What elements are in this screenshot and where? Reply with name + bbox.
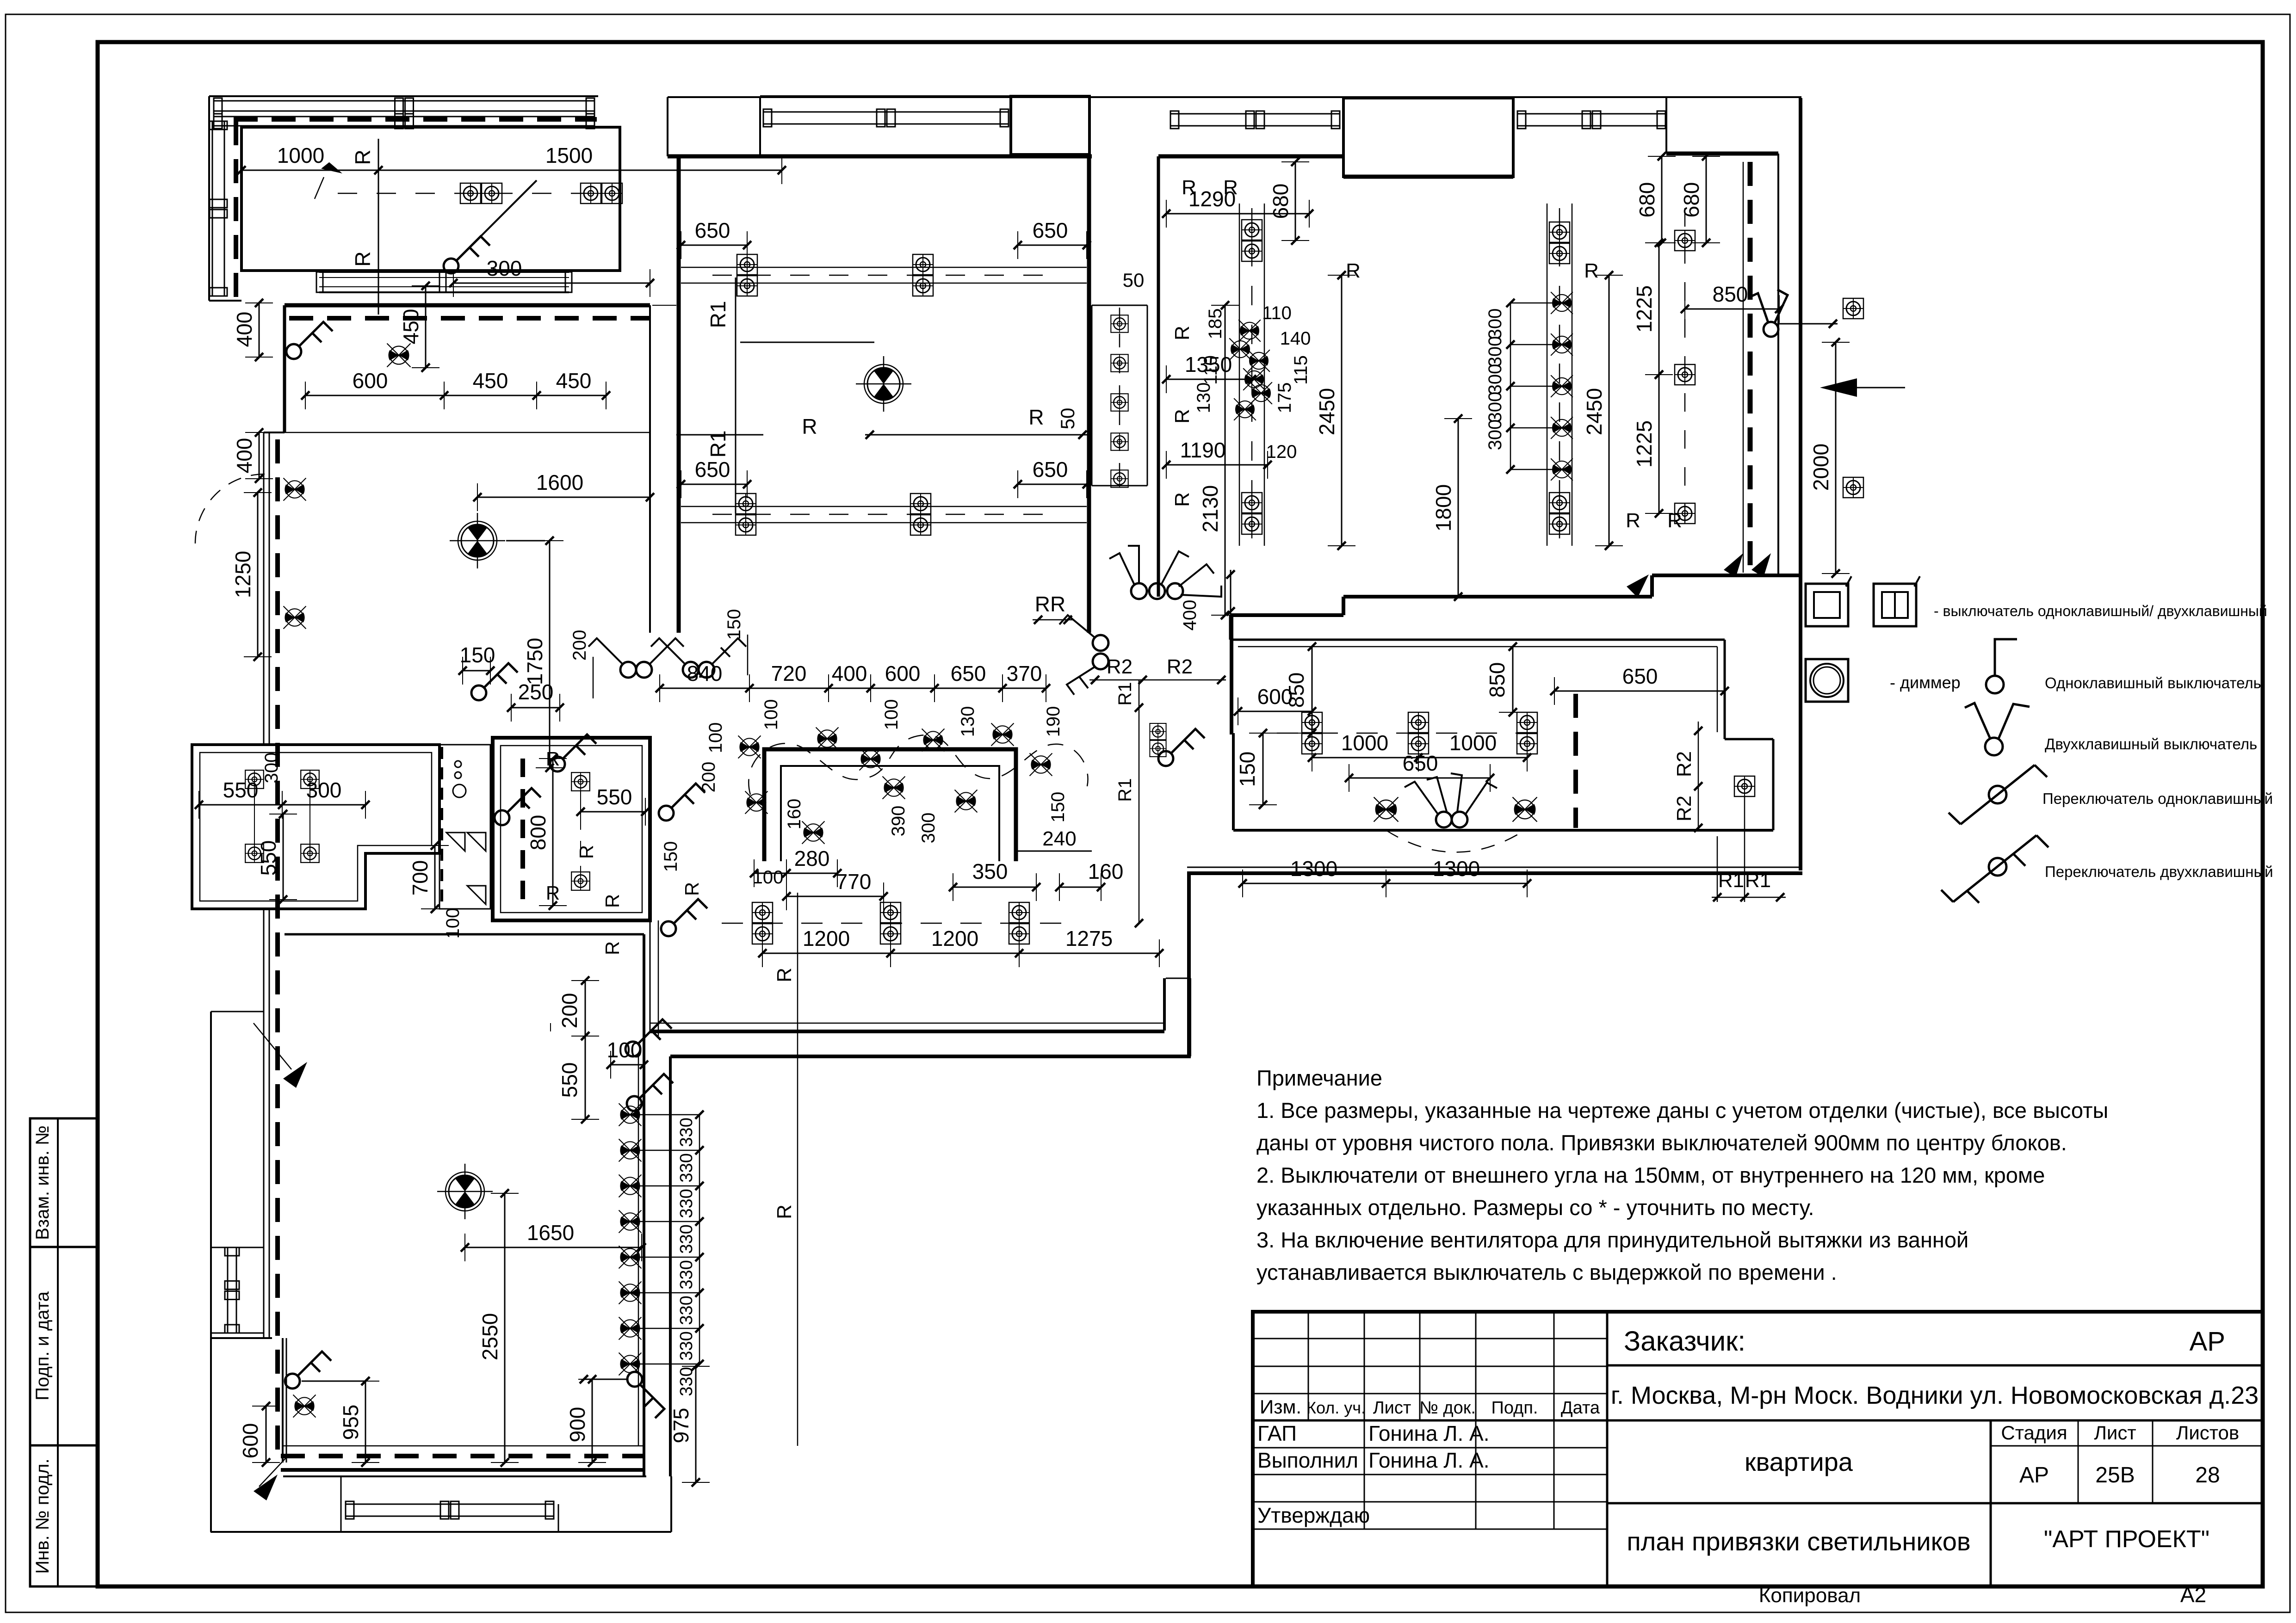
dim 400 hall lower xyxy=(259,432,260,479)
legend two-key changeover switch xyxy=(2036,835,2048,847)
svg-text:R: R xyxy=(802,414,817,438)
svg-text:400: 400 xyxy=(832,661,867,685)
svg-text:R: R xyxy=(576,845,597,859)
svg-text:R: R xyxy=(1171,492,1194,507)
double wall right of bottom room xyxy=(669,1056,672,1476)
svg-text:1275: 1275 xyxy=(1065,926,1113,950)
svg-text:Гонина Л. А.: Гонина Л. А. xyxy=(1368,1421,1490,1445)
svg-text:300: 300 xyxy=(306,778,342,802)
svg-text:даны от уровня чистого пола.: даны от уровня чистого пола. Привязки вы… xyxy=(1256,1130,2067,1155)
bathroom dashed line xyxy=(520,759,525,906)
svg-text:100: 100 xyxy=(881,699,902,730)
svg-text:план привязки светильников: план привязки светильников xyxy=(1627,1527,1970,1556)
svg-text:200: 200 xyxy=(569,630,590,661)
svg-text:R: R xyxy=(773,968,796,982)
svg-text:330: 330 xyxy=(677,1189,696,1218)
shaft walls xyxy=(1091,305,1093,486)
dim 700 / 100 shaft xyxy=(434,845,436,909)
outside wall lights xyxy=(1843,298,1863,319)
svg-text:700: 700 xyxy=(408,860,432,896)
downlight pair B2 xyxy=(1242,493,1262,534)
svg-text:600: 600 xyxy=(885,661,921,685)
svg-text:1650: 1650 xyxy=(527,1221,574,1245)
svg-text:300: 300 xyxy=(1485,336,1505,367)
svg-text:Переключатель одноклавишный: Переключатель одноклавишный xyxy=(2042,790,2273,807)
svg-text:330: 330 xyxy=(677,1260,696,1289)
top edge right wing xyxy=(668,96,1801,98)
switch left of kitchen xyxy=(550,734,596,771)
left balcony outer wall xyxy=(210,1012,212,1532)
hall top wall xyxy=(285,303,650,308)
svg-text:330: 330 xyxy=(677,1367,696,1396)
vent shaft between WC and bath xyxy=(439,745,490,909)
svg-text:2. Выключатели от внешнего угл: 2. Выключатели от внешнего угла на 150мм… xyxy=(1256,1163,2045,1187)
guest dims xyxy=(1238,711,1312,712)
bathroom walls xyxy=(493,738,650,920)
bedroom dashed thick wardrobe line xyxy=(1748,162,1753,573)
svg-text:R2: R2 xyxy=(1167,655,1193,678)
bedroom right inner wall xyxy=(1777,154,1779,575)
window band bedroom left xyxy=(1170,113,1340,115)
dining dashed light row xyxy=(722,923,1064,924)
WC dims xyxy=(199,804,365,806)
bedroom bottom walls stepped xyxy=(1652,574,1801,577)
svg-text:R: R xyxy=(1028,405,1044,429)
bowtie row right wall xyxy=(619,1104,642,1126)
dim 1250 xyxy=(257,493,259,657)
svg-text:1000: 1000 xyxy=(277,143,324,167)
chandelier bottom room xyxy=(437,1164,493,1219)
dims 650 living lower xyxy=(681,484,747,485)
guest room bottom wall xyxy=(1233,829,1773,832)
svg-text:300: 300 xyxy=(1485,309,1505,339)
2000 dim outside xyxy=(1835,342,1837,574)
svg-text:№ док.: № док. xyxy=(1419,1398,1476,1418)
svg-text:150: 150 xyxy=(460,643,495,667)
svg-text:330: 330 xyxy=(677,1331,696,1360)
svg-text:Подп. и дата: Подп. и дата xyxy=(32,1291,53,1400)
svg-text:680: 680 xyxy=(1679,182,1703,218)
svg-text:R2: R2 xyxy=(1673,796,1696,821)
svg-text:Изм.: Изм. xyxy=(1260,1396,1301,1418)
svg-text:400: 400 xyxy=(232,438,256,474)
svg-text:Листов: Листов xyxy=(2176,1422,2239,1444)
corridor bottom thin line xyxy=(650,1023,1164,1024)
single downlights column right xyxy=(1675,230,1695,251)
svg-text:550: 550 xyxy=(597,785,632,809)
dim 1000 / 1500 top-left xyxy=(241,170,782,171)
svg-text:R: R xyxy=(1667,509,1682,532)
svg-text:Утверждаю: Утверждаю xyxy=(1257,1503,1370,1527)
wall down to guest area xyxy=(1187,872,1191,1056)
svg-text:АР: АР xyxy=(2019,1463,2049,1487)
svg-text:330: 330 xyxy=(677,1224,696,1253)
bottom room left wall xyxy=(282,1338,284,1463)
svg-text:50: 50 xyxy=(1057,408,1078,430)
svg-text:квартира: квартира xyxy=(1745,1447,1853,1476)
svg-text:680: 680 xyxy=(1635,182,1659,218)
dim 300 sill xyxy=(453,283,650,284)
svg-text:150: 150 xyxy=(661,841,681,872)
wardrobe room walls xyxy=(241,127,620,271)
switch bedroom right xyxy=(1748,290,1788,337)
bathroom dims xyxy=(552,759,554,906)
bottom room top wall xyxy=(285,933,644,936)
svg-text:770: 770 xyxy=(836,870,872,894)
switch top of row xyxy=(627,1074,673,1111)
living room left wall xyxy=(677,156,681,633)
legend one-key changeover switch xyxy=(2035,765,2047,777)
dims 200 550 100 right of room xyxy=(585,981,586,1036)
svg-text:185: 185 xyxy=(1205,309,1225,339)
svg-text:RR: RR xyxy=(1035,592,1065,616)
svg-text:R: R xyxy=(1171,409,1194,424)
svg-text:650: 650 xyxy=(695,218,730,242)
bedroom left wall xyxy=(1157,156,1160,597)
switches near bath xyxy=(495,788,541,825)
dim 1600 xyxy=(477,497,650,498)
switch near balcony door xyxy=(444,236,490,273)
downlight pair B1 xyxy=(1242,220,1262,261)
svg-text:1500: 1500 xyxy=(545,143,593,167)
svg-text:Дата: Дата xyxy=(1561,1398,1600,1418)
svg-text:1250: 1250 xyxy=(231,551,255,598)
bottom balcony outline xyxy=(210,1531,671,1533)
R ticks living mid xyxy=(676,434,763,436)
svg-text:R1: R1 xyxy=(706,301,730,328)
svg-text:850: 850 xyxy=(1713,282,1748,306)
svg-text:550: 550 xyxy=(256,840,280,876)
bedroom top wall right part xyxy=(1666,152,1778,156)
leader arrows bedroom bottom xyxy=(1627,574,1649,598)
guest switches xyxy=(1436,812,1452,827)
svg-text:240: 240 xyxy=(1042,827,1076,850)
window band left vertical xyxy=(212,121,213,296)
left stamp boxes xyxy=(30,1118,98,1586)
living centreline lower xyxy=(712,514,1046,515)
dims 650 living upper xyxy=(681,245,747,246)
wall lights on corridor wall xyxy=(284,478,306,501)
window band top-left xyxy=(214,100,594,102)
svg-text:Инв. № подл.: Инв. № подл. xyxy=(32,1458,53,1574)
legend two-key switch xyxy=(1985,738,2003,755)
svg-text:200: 200 xyxy=(557,993,582,1029)
svg-text:300: 300 xyxy=(261,753,282,784)
svg-text:25В: 25В xyxy=(2095,1463,2135,1487)
svg-text:R: R xyxy=(1584,259,1599,282)
svg-text:Выполнил: Выполнил xyxy=(1257,1448,1358,1472)
svg-text:350: 350 xyxy=(972,859,1008,883)
bedroom bowtie cluster xyxy=(1238,320,1261,342)
svg-text:1000: 1000 xyxy=(1449,731,1497,755)
svg-text:А2: А2 xyxy=(2180,1583,2206,1607)
bedroom bowtie column xyxy=(1551,292,1573,314)
svg-text:1000: 1000 xyxy=(1341,731,1388,755)
living ceiling lines upper xyxy=(681,267,1087,268)
dim 900 vertical xyxy=(592,1379,593,1463)
svg-text:100: 100 xyxy=(761,699,781,730)
svg-text:R: R xyxy=(681,882,703,896)
svg-text:1190: 1190 xyxy=(1180,438,1226,462)
svg-text:650: 650 xyxy=(1033,457,1068,481)
wall light hall top xyxy=(387,344,411,367)
outer south wall right wing xyxy=(1187,867,1802,868)
guest door arc xyxy=(1386,830,1525,852)
svg-text:Переключатель двухклавишный: Переключатель двухклавишный xyxy=(2045,863,2273,880)
downlight pair L3 xyxy=(736,494,756,535)
dim 1650 xyxy=(465,1247,642,1248)
svg-text:955: 955 xyxy=(339,1405,363,1440)
svg-text:450: 450 xyxy=(473,369,508,393)
kitchen U counter xyxy=(764,749,1016,861)
svg-text:300: 300 xyxy=(1485,392,1505,423)
svg-text:300: 300 xyxy=(487,256,522,280)
svg-text:850: 850 xyxy=(1284,673,1308,708)
svg-text:120: 120 xyxy=(1266,442,1297,462)
dims 600 450 450 xyxy=(305,395,606,396)
door arc hall xyxy=(195,474,265,543)
triple switch cluster xyxy=(1131,583,1147,599)
svg-text:1. Все размеры, указанные на: 1. Все размеры, указанные на чертеже дан… xyxy=(1256,1098,2108,1123)
dim 400 hall upper xyxy=(259,303,260,357)
svg-text:370: 370 xyxy=(1007,661,1042,685)
guest bowties xyxy=(1374,797,1398,821)
guest room inner lines xyxy=(1238,646,1717,648)
svg-text:390: 390 xyxy=(888,806,909,837)
window sill below wardrobe xyxy=(319,271,569,273)
svg-text:100: 100 xyxy=(706,722,726,753)
R labels corridor verticals xyxy=(550,1023,551,1031)
svg-text:1225: 1225 xyxy=(1632,285,1656,333)
switch bottom of row xyxy=(627,1372,664,1418)
dim 1750 vertical xyxy=(549,541,551,768)
bottom room right wall xyxy=(643,934,645,1475)
svg-text:400: 400 xyxy=(232,312,256,347)
svg-text:устанавливается выключатель с: устанавливается выключатель с выдержкой … xyxy=(1256,1260,1837,1284)
svg-text:900: 900 xyxy=(565,1407,589,1443)
svg-text:АР: АР xyxy=(2190,1327,2225,1357)
window band living xyxy=(763,111,1009,113)
svg-text:R: R xyxy=(546,882,560,904)
outer right wall xyxy=(1799,98,1802,870)
svg-text:R1: R1 xyxy=(1115,778,1135,802)
niche block top xyxy=(1011,96,1089,154)
guest room top wall xyxy=(1230,639,1725,641)
svg-text:840: 840 xyxy=(687,661,723,685)
svg-text:650: 650 xyxy=(695,457,730,481)
dim 1200 1200 1275 xyxy=(762,953,1159,954)
svg-text:300: 300 xyxy=(1485,364,1505,395)
switch hall left xyxy=(286,322,333,359)
switch above room xyxy=(625,1019,672,1056)
svg-text:R1: R1 xyxy=(1115,682,1135,705)
downlight pair A2 xyxy=(581,183,622,204)
svg-text:Лист: Лист xyxy=(2094,1422,2136,1444)
svg-text:Двухклавишный выключатель: Двухклавишный выключатель xyxy=(2045,735,2257,753)
bedroom dims xyxy=(1166,213,1309,215)
dim 150 hall bottom xyxy=(463,670,490,672)
svg-text:800: 800 xyxy=(526,815,550,851)
left balcony wall cap xyxy=(211,1337,272,1339)
svg-text:2450: 2450 xyxy=(1315,388,1339,435)
svg-text:- диммер: - диммер xyxy=(1890,673,1961,692)
svg-text:1750: 1750 xyxy=(523,638,547,685)
niche block bedroom xyxy=(1343,98,1513,177)
left balcony window xyxy=(227,1247,229,1333)
svg-text:28: 28 xyxy=(2195,1463,2220,1487)
shaft downlights xyxy=(1111,315,1128,332)
kitchen top dim chain xyxy=(660,688,1046,689)
bathroom downlights xyxy=(571,772,590,791)
svg-text:650: 650 xyxy=(1403,751,1438,775)
svg-text:2550: 2550 xyxy=(478,1313,502,1360)
WC room walls xyxy=(192,745,439,909)
legend switch symbol one-gang xyxy=(1806,584,1848,626)
svg-text:1200: 1200 xyxy=(931,926,978,950)
corridor left double wall xyxy=(263,432,265,745)
svg-text:330: 330 xyxy=(677,1296,696,1325)
svg-text:2450: 2450 xyxy=(1582,388,1606,435)
downlight pair L1 xyxy=(737,254,757,296)
svg-text:550: 550 xyxy=(223,778,259,802)
svg-text:1800: 1800 xyxy=(1431,484,1455,531)
svg-text:115: 115 xyxy=(1291,355,1311,385)
svg-text:850: 850 xyxy=(1485,662,1509,698)
svg-text:R1: R1 xyxy=(1745,869,1771,892)
svg-text:110: 110 xyxy=(1201,355,1221,385)
corridor dashed ceiling line left xyxy=(275,439,280,1452)
svg-text:600: 600 xyxy=(353,369,388,393)
living room top wall xyxy=(668,154,1092,159)
svg-text:975: 975 xyxy=(669,1408,693,1444)
dim 250 xyxy=(511,707,560,709)
switch hall bottom xyxy=(471,663,518,700)
svg-text:3. На включение вентилятора дл: 3. На включение вентилятора для принудит… xyxy=(1256,1228,1968,1252)
small circles group xyxy=(455,761,461,767)
living ceiling lines lower xyxy=(681,506,1087,507)
svg-text:1300: 1300 xyxy=(1433,857,1480,881)
kitchen dashed garland xyxy=(749,735,1088,795)
svg-text:720: 720 xyxy=(771,661,807,685)
svg-text:650: 650 xyxy=(1622,664,1658,688)
svg-text:Кол. уч.: Кол. уч. xyxy=(1306,1398,1366,1417)
svg-text:110: 110 xyxy=(1262,303,1292,323)
wall light bottom left xyxy=(293,1395,316,1418)
svg-text:450: 450 xyxy=(399,309,423,345)
dim 600 bottom left xyxy=(266,1406,267,1463)
svg-text:150: 150 xyxy=(1235,752,1259,787)
svg-text:R: R xyxy=(1171,326,1194,340)
svg-text:Стадия: Стадия xyxy=(2001,1422,2067,1444)
lower parallel wall xyxy=(670,1055,1191,1058)
shaft dashed centreline xyxy=(1119,308,1120,483)
shaft hatch marks xyxy=(446,833,465,851)
double switch pair B xyxy=(683,662,699,678)
svg-text:г. Москва, М-рн Моск. Водники: г. Москва, М-рн Моск. Водники ул. Новомо… xyxy=(1611,1382,2259,1409)
step pilaster xyxy=(1163,978,1166,1031)
dim 2550 vertical xyxy=(504,1193,506,1463)
hall right wall xyxy=(649,305,651,633)
svg-text:1200: 1200 xyxy=(803,926,850,950)
centreline + R labels top-left xyxy=(338,193,597,194)
svg-text:650: 650 xyxy=(1033,218,1068,242)
svg-text:R2: R2 xyxy=(1673,751,1696,777)
legend dimmer symbol xyxy=(1806,659,1848,702)
svg-text:R: R xyxy=(601,941,623,955)
svg-text:300: 300 xyxy=(1485,420,1505,450)
svg-text:190: 190 xyxy=(1043,706,1064,737)
svg-text:550: 550 xyxy=(557,1062,582,1098)
svg-text:R: R xyxy=(351,251,375,266)
dim 1300 1300 xyxy=(1243,883,1527,884)
legend one-key switch xyxy=(1995,639,2017,676)
hall left wall step xyxy=(264,432,285,433)
downlight pair L2 xyxy=(913,254,933,296)
bottom room bottom lines xyxy=(283,1445,644,1447)
svg-text:1300: 1300 xyxy=(1290,857,1337,881)
switch dining right xyxy=(1158,729,1205,766)
living centreline upper xyxy=(712,275,1046,276)
big filled arrow xyxy=(1820,378,1857,397)
svg-text:680: 680 xyxy=(1269,184,1293,219)
svg-text:R: R xyxy=(601,894,623,908)
svg-text:1225: 1225 xyxy=(1632,420,1656,468)
svg-text:Лист: Лист xyxy=(1373,1398,1411,1418)
switch bottom-left xyxy=(285,1351,331,1388)
svg-text:175: 175 xyxy=(1275,383,1295,413)
svg-text:2130: 2130 xyxy=(1198,485,1222,532)
corridor bottom wall xyxy=(650,1030,1164,1033)
svg-text:R: R xyxy=(1223,176,1238,199)
dim 955 vertical xyxy=(365,1381,366,1463)
bedroom top wall left part xyxy=(1158,154,1343,159)
downlight pair B3 xyxy=(1549,222,1570,264)
dim 975 vertical xyxy=(695,1366,697,1482)
svg-text:Гонина Л. А.: Гонина Л. А. xyxy=(1368,1448,1490,1472)
svg-text:130: 130 xyxy=(1194,383,1214,413)
svg-text:R: R xyxy=(1626,509,1640,532)
svg-text:R: R xyxy=(1346,259,1361,282)
svg-text:Одноклавишный выключатель: Одноклавишный выключатель xyxy=(2045,674,2261,691)
ceiling dashed line top-left xyxy=(234,117,597,122)
switches stack left of corridor xyxy=(1093,635,1108,651)
leader arrow top-left xyxy=(315,160,344,199)
svg-text:R2: R2 xyxy=(1107,655,1133,678)
svg-text:140: 140 xyxy=(1280,328,1311,349)
svg-text:600: 600 xyxy=(238,1423,262,1459)
dim 450 vertical xyxy=(425,286,427,368)
svg-text:R: R xyxy=(1182,176,1196,199)
guest single downlight xyxy=(1734,776,1755,796)
guest room right wall xyxy=(1772,739,1775,830)
svg-text:"АРТ ПРОЕКТ": "АРТ ПРОЕКТ" xyxy=(2044,1526,2209,1553)
svg-text:50: 50 xyxy=(1123,269,1145,291)
title block xyxy=(1253,1312,2263,1586)
guest dashed partition xyxy=(1573,694,1578,828)
svg-text:160: 160 xyxy=(784,799,805,830)
hall ceiling step line xyxy=(285,432,650,433)
svg-text:указанных отдельно. Размеры со: указанных отдельно. Размеры со * - уточн… xyxy=(1256,1195,1814,1220)
hall left wall upper xyxy=(283,305,286,432)
legend switch symbol two-gang xyxy=(1874,584,1916,626)
hall ceiling dashed xyxy=(289,316,650,321)
svg-text:R: R xyxy=(351,149,375,165)
svg-text:1600: 1600 xyxy=(536,470,583,494)
chandelier living xyxy=(856,356,911,412)
svg-text:ГАП: ГАП xyxy=(1257,1421,1297,1445)
svg-text:450: 450 xyxy=(556,369,592,393)
chandelier hall xyxy=(450,513,505,568)
